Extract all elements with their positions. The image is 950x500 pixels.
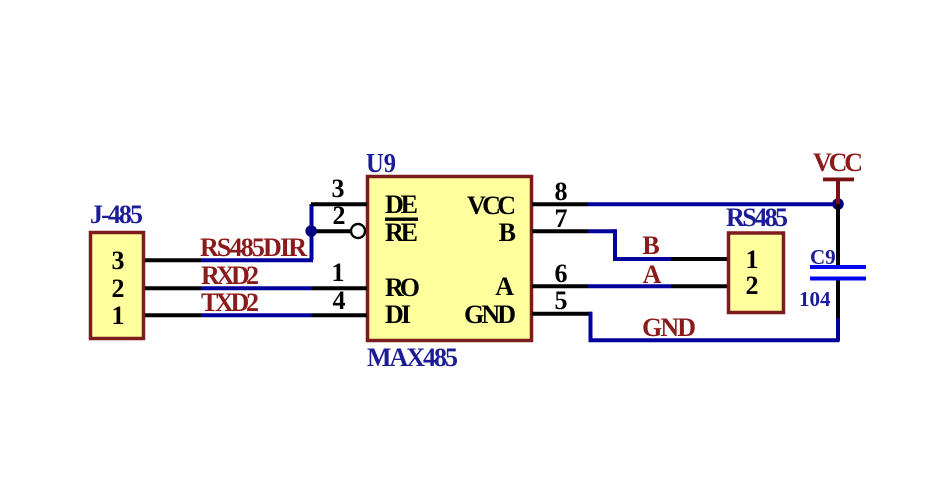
wire RXD2 to RO pin (black segment) xyxy=(312,286,367,290)
connector J-485 xyxy=(91,233,144,339)
svg-text:TXD2: TXD2 xyxy=(201,288,259,317)
wire DE pin stub (black) xyxy=(311,202,367,206)
pin number 6 (A) xyxy=(555,259,568,288)
net label GND xyxy=(642,313,696,342)
pin name B xyxy=(499,218,516,247)
wire A to RS485 pin2 (black) xyxy=(671,284,728,288)
wire VCC pin8 stub (black) xyxy=(532,202,588,206)
wire B to RS485 pin1 (black) xyxy=(671,257,728,261)
inverter bubble on RE pin xyxy=(351,224,365,238)
svg-text:RO: RO xyxy=(385,273,420,302)
wire J-485 pin2 to RO (black segment) xyxy=(145,286,201,290)
svg-text:3: 3 xyxy=(112,246,125,275)
pin 1 of RS485 xyxy=(746,245,759,274)
pin number 2 (RE) xyxy=(333,201,346,230)
wire B net blue upper xyxy=(588,229,617,233)
pin name DI xyxy=(385,300,411,329)
wire VCC net (blue) xyxy=(588,202,840,206)
svg-text:U9: U9 xyxy=(366,148,396,178)
net label RS485DIR xyxy=(200,233,307,262)
svg-text:1: 1 xyxy=(332,258,345,287)
label J-485 xyxy=(90,200,143,229)
pin name RO xyxy=(385,273,420,302)
svg-text:GND: GND xyxy=(642,313,696,342)
svg-text:3: 3 xyxy=(332,174,345,203)
wire J-485 pin1 to DI (black segment) xyxy=(145,313,201,317)
junction dot RS485DIR/RE xyxy=(305,225,317,237)
pin number 1 (RO) xyxy=(332,258,345,287)
svg-text:4: 4 xyxy=(333,286,346,315)
wire C9 to GND (black vertical) xyxy=(836,281,840,321)
pin number 3 (DE) xyxy=(332,174,345,203)
net label TXD2 xyxy=(201,288,259,317)
label C9 xyxy=(810,245,836,269)
svg-text:MAX485: MAX485 xyxy=(367,343,458,372)
net label B xyxy=(642,231,659,260)
wire A pin6 stub (black) xyxy=(532,284,588,288)
svg-text:J-485: J-485 xyxy=(90,200,143,229)
wire B net vertical xyxy=(613,229,617,260)
net label A xyxy=(643,260,662,289)
wire RS485DIR (blue segment) xyxy=(201,258,313,262)
wire RS485DIR vertical riser xyxy=(310,204,314,260)
value label 104 xyxy=(799,287,831,311)
svg-text:RE: RE xyxy=(385,218,418,247)
pin 2 of J-485 xyxy=(112,274,125,303)
pin number 8 (VCC) xyxy=(555,177,568,206)
net label RXD2 xyxy=(201,261,259,290)
wire RE pin stub (black) xyxy=(311,229,352,233)
svg-text:2: 2 xyxy=(112,274,125,303)
capacitor C9 top plate xyxy=(810,265,866,269)
svg-text:RS485: RS485 xyxy=(726,203,788,232)
wire GND vertical (blue) xyxy=(589,312,593,342)
svg-text:RXD2: RXD2 xyxy=(201,261,259,290)
wire B net blue lower xyxy=(613,257,671,261)
wire VCC junction to C9 (black vertical) xyxy=(836,204,840,266)
svg-text:A: A xyxy=(643,260,662,289)
svg-text:104: 104 xyxy=(799,287,831,311)
junction dot VCC xyxy=(832,198,844,210)
svg-text:8: 8 xyxy=(555,177,568,206)
svg-text:B: B xyxy=(499,218,516,247)
pin 2 of RS485 xyxy=(746,271,759,300)
svg-text:A: A xyxy=(495,272,514,301)
svg-text:2: 2 xyxy=(746,271,759,300)
wire TXD2 to DI pin (black segment) xyxy=(312,313,367,317)
svg-text:DE: DE xyxy=(385,190,418,219)
pin name A xyxy=(495,272,514,301)
pin name VCC xyxy=(467,191,516,220)
svg-text:1: 1 xyxy=(112,301,125,330)
wire RXD2 (blue segment) xyxy=(201,286,312,290)
wire GND pin5 stub (black) xyxy=(532,312,592,316)
svg-text:B: B xyxy=(642,231,659,260)
wire GND bottom run (blue) xyxy=(589,338,840,342)
svg-text:DI: DI xyxy=(385,300,411,329)
wire TXD2 (blue segment) xyxy=(201,313,312,317)
pin name GND xyxy=(464,300,516,329)
pin number 5 (GND) xyxy=(555,286,568,315)
wire J-485 pin3 to RS485DIR (black segment) xyxy=(145,258,201,262)
pin 3 of J-485 xyxy=(112,246,125,275)
wire B pin7 stub (black) xyxy=(532,229,588,233)
VCC power symbol xyxy=(823,178,854,207)
svg-text:7: 7 xyxy=(555,204,568,233)
pin number 7 (B) xyxy=(555,204,568,233)
connector RS485 body xyxy=(729,233,784,313)
svg-text:5: 5 xyxy=(555,286,568,315)
pin name DE xyxy=(385,190,418,219)
pin name RE xyxy=(385,218,418,247)
label RS485 xyxy=(726,203,788,232)
svg-text:C9: C9 xyxy=(810,245,836,269)
svg-text:GND: GND xyxy=(464,300,516,329)
svg-text:1: 1 xyxy=(746,245,759,274)
svg-text:6: 6 xyxy=(555,259,568,288)
capacitor C9 bottom plate xyxy=(810,277,866,281)
wire A net (blue) xyxy=(588,284,671,288)
pin 1 of J-485 xyxy=(112,301,125,330)
IC U9 MAX485 body xyxy=(368,177,532,341)
label U9 xyxy=(366,148,396,178)
svg-text:VCC: VCC xyxy=(813,148,863,177)
net label VCC xyxy=(813,148,863,177)
svg-text:VCC: VCC xyxy=(467,191,516,220)
pin number 4 (DI) xyxy=(333,286,346,315)
overline of RE xyxy=(385,218,418,221)
label MAX485 xyxy=(367,343,458,372)
wire C9 bottom to GND run (blue vertical) xyxy=(836,318,840,341)
svg-text:RS485DIR: RS485DIR xyxy=(200,233,307,262)
